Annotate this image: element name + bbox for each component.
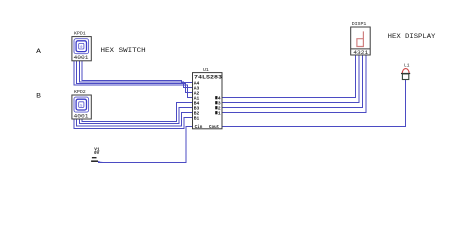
svg-text:5: 5 bbox=[80, 104, 82, 108]
svg-text:4321: 4321 bbox=[353, 50, 368, 56]
svg-text:A: A bbox=[36, 48, 41, 55]
svg-text:DISP1: DISP1 bbox=[352, 21, 367, 27]
svg-text:HEX SWITCH: HEX SWITCH bbox=[101, 47, 146, 54]
svg-text:0: 0 bbox=[80, 46, 82, 50]
svg-text:KPD2: KPD2 bbox=[74, 89, 86, 95]
svg-text:4001: 4001 bbox=[74, 113, 89, 119]
svg-text:HEX DISPLAY: HEX DISPLAY bbox=[388, 33, 436, 40]
svg-text:1: 1 bbox=[218, 110, 221, 116]
svg-text:Cout: Cout bbox=[209, 125, 220, 130]
svg-text:B1: B1 bbox=[194, 115, 200, 121]
svg-text:U1: U1 bbox=[203, 67, 209, 73]
svg-text:74LS283: 74LS283 bbox=[194, 74, 222, 80]
svg-text:B: B bbox=[36, 93, 41, 100]
svg-text:L1: L1 bbox=[404, 63, 410, 69]
svg-text:KPD1: KPD1 bbox=[74, 31, 86, 37]
svg-text:4001: 4001 bbox=[74, 55, 89, 61]
svg-text:Cin: Cin bbox=[195, 125, 203, 130]
svg-text:0V: 0V bbox=[94, 151, 100, 156]
